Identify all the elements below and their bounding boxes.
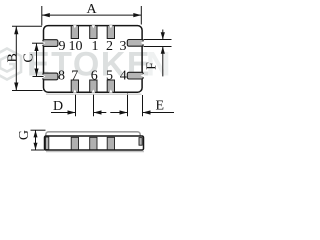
- side pad 3 (right top): [127, 40, 144, 47]
- svg-text:10: 10: [69, 39, 83, 54]
- dimension D: [51, 95, 106, 117]
- dimension B: [12, 26, 43, 90]
- castellation pad 2 (top): [107, 25, 114, 38]
- pin numbers bottom row: [58, 69, 127, 84]
- castellation 5 (side view bar): [107, 137, 114, 149]
- package body (top view): [44, 26, 143, 93]
- dimension G: [31, 130, 46, 150]
- svg-text:4: 4: [120, 69, 127, 84]
- svg-text:1: 1: [92, 39, 99, 54]
- dimension E: [110, 93, 174, 116]
- svg-text:7: 7: [71, 69, 78, 84]
- castellation 7 (side view bar): [71, 137, 78, 149]
- side pad 8 end (side view left bar): [45, 137, 48, 150]
- castellation pad 1 (top): [90, 25, 97, 38]
- svg-text:5: 5: [106, 69, 113, 84]
- top view shadow: [46, 93, 142, 95]
- svg-text:8: 8: [58, 69, 65, 84]
- castellation 6 (side view bar): [90, 137, 97, 149]
- side pad 9 (left top): [42, 40, 58, 47]
- svg-text:6: 6: [91, 69, 98, 84]
- svg-text:B: B: [6, 53, 21, 62]
- side pad 4 end (side view right bar): [139, 138, 142, 146]
- castellation pad 7 (bottom): [71, 80, 78, 93]
- side view shadow: [46, 151, 144, 153]
- dimension F: [144, 30, 172, 77]
- svg-text:9: 9: [59, 39, 66, 54]
- dimension A: [42, 6, 142, 26]
- dimension C: [32, 43, 44, 76]
- side pad 4 (right bottom): [127, 72, 144, 79]
- side pad 8 (left bottom): [42, 73, 58, 80]
- side view lid: [46, 132, 140, 139]
- svg-text:G: G: [17, 130, 32, 140]
- svg-text:3: 3: [120, 39, 127, 54]
- svg-text:D: D: [53, 99, 63, 114]
- svg-text:E: E: [156, 98, 165, 113]
- castellation pad 6 (bottom): [90, 80, 97, 93]
- svg-text:F: F: [144, 62, 159, 70]
- watermark hexagon logo: [0, 49, 21, 80]
- side view base: [45, 136, 144, 150]
- svg-text:2: 2: [106, 39, 113, 54]
- castellation pad 10 (top): [71, 25, 78, 38]
- svg-text:A: A: [86, 2, 97, 17]
- castellation pad 5 (bottom): [107, 80, 114, 93]
- pin numbers top row: [59, 39, 127, 54]
- svg-text:C: C: [22, 53, 37, 62]
